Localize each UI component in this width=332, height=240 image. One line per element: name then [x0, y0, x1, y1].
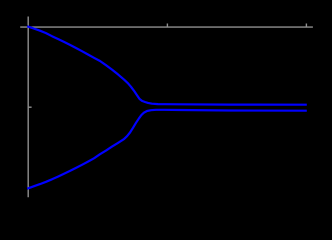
- y tick 1: [28, 106, 31, 108]
- x tick 2: [305, 24, 307, 28]
- lower curve: [27, 110, 307, 189]
- y-axis: [27, 17, 29, 198]
- upper curve: [27, 26, 307, 104]
- x tick 1: [166, 24, 168, 28]
- y tick 2: [28, 186, 31, 188]
- x-axis: [20, 26, 313, 28]
